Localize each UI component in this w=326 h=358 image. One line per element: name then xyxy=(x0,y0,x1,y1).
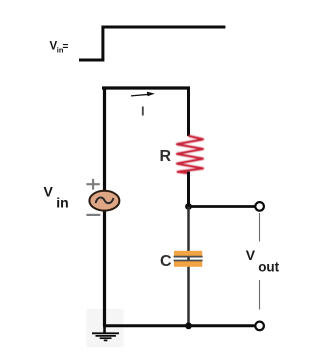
current arrow xyxy=(131,92,155,97)
svg-text:in: in xyxy=(56,194,68,210)
polarity minus xyxy=(86,214,100,216)
wire right top (to resistor) xyxy=(187,87,190,137)
svg-text:R: R xyxy=(160,148,172,165)
node Vout label xyxy=(246,247,280,274)
capacitor C1 orange highlight plates xyxy=(174,251,203,267)
wire output lead thin top xyxy=(259,213,261,242)
svg-text:I: I xyxy=(141,104,145,119)
wire node A to output terminal xyxy=(189,205,256,208)
node Vin= label xyxy=(50,41,69,55)
svg-text:V: V xyxy=(246,247,256,263)
output terminal bottom xyxy=(255,322,264,331)
faint ground background patch xyxy=(87,309,124,347)
node B junction dot (bottom) xyxy=(185,322,192,329)
wire top (Vin to R) xyxy=(102,86,190,89)
ground xyxy=(92,325,119,340)
wire capacitor branch xyxy=(187,207,190,326)
output terminal top xyxy=(255,202,264,211)
voltage source V1 xyxy=(89,191,119,211)
node Vin source label xyxy=(44,184,69,211)
svg-text:C: C xyxy=(160,253,172,270)
wire bottom (ground rail) xyxy=(103,324,256,327)
resistor R1 zigzag xyxy=(176,136,203,173)
wire left (Vin branch) xyxy=(103,87,106,326)
node Vin step waveform xyxy=(79,27,225,60)
svg-text:V: V xyxy=(44,184,54,200)
node A junction dot xyxy=(185,203,192,210)
polarity plus xyxy=(86,179,99,190)
svg-text:=: = xyxy=(63,42,69,53)
wire resistor to node A xyxy=(187,172,190,208)
svg-text:out: out xyxy=(258,260,279,275)
wire output lead thin bottom xyxy=(259,280,261,310)
